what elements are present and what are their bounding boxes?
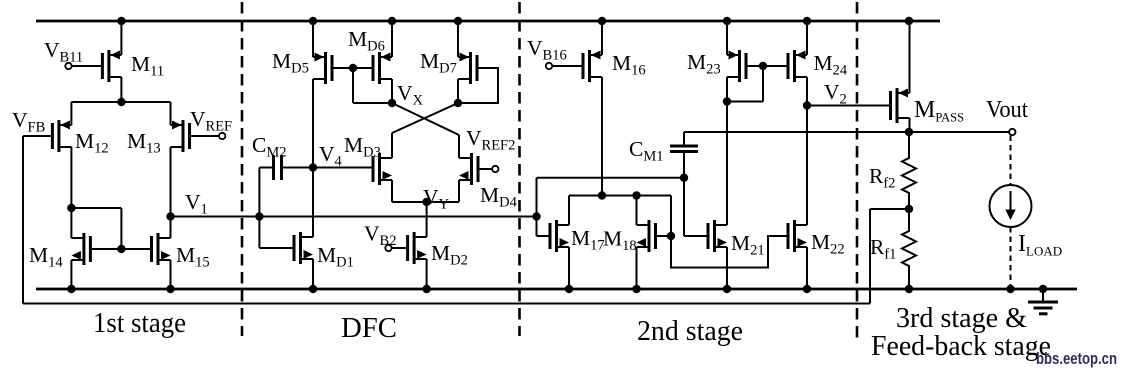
- wire MD3 drain riser: [391, 133, 393, 158]
- wire M11 drain to tail node: [120, 77, 122, 103]
- transistor MPASS: [896, 88, 899, 123]
- wire M17 gate lead: [536, 217, 538, 237]
- svg-text:MD7: MD7: [420, 49, 457, 77]
- wire VY link: [392, 201, 459, 203]
- transistor MD2: [413, 232, 416, 264]
- transistor M14: [82, 233, 85, 265]
- svg-text:MD6: MD6: [348, 27, 385, 55]
- wire M15 drain up to V1: [170, 217, 172, 238]
- svg-text:V2: V2: [824, 80, 847, 108]
- node dot M11 on rail: [117, 17, 125, 25]
- wire MD1 drain up to V4: [312, 168, 314, 238]
- node dot Vout: [905, 128, 913, 136]
- wire M15 source down: [170, 260, 172, 289]
- svg-text:VB16: VB16: [527, 36, 567, 64]
- node dot CM1 bottom: [680, 174, 688, 182]
- svg-text:M15: M15: [176, 243, 210, 271]
- transistor M16: [588, 50, 591, 82]
- wire top supply rail: [36, 20, 940, 23]
- wire MPASS source to rail: [909, 21, 911, 93]
- wire mirror top link: [569, 195, 671, 197]
- terminal VB16: [546, 63, 552, 69]
- wire M23 drain down: [726, 77, 728, 102]
- wire VFB gate lead: [23, 135, 51, 137]
- wire M13 source up: [170, 102, 172, 125]
- wire Vout bus: [684, 131, 1009, 133]
- wire M12 drain down: [70, 147, 72, 208]
- wire CM2 to V1: [258, 168, 260, 217]
- wire M13 drain down to V1: [170, 147, 172, 217]
- svg-text:MD3: MD3: [344, 133, 381, 161]
- wire gate mirror M14 M15: [92, 248, 151, 250]
- terminal VREF2 gate: [480, 168, 493, 170]
- svg-text:CM1: CM1: [629, 137, 664, 165]
- svg-text:M23: M23: [687, 50, 721, 78]
- node dot MD7 on rail: [454, 17, 462, 25]
- wire MD4 drain riser: [458, 135, 460, 158]
- divider 1st stage / DFC: [241, 2, 244, 336]
- transistor MD3: [378, 153, 381, 185]
- wire M23 diode link: [762, 66, 764, 102]
- svg-text:VREF: VREF: [190, 107, 232, 135]
- node dot M23 on rail: [723, 17, 731, 25]
- divider DFC / 2nd stage: [518, 2, 521, 336]
- wire M12 source up: [70, 102, 72, 125]
- svg-text:MD2: MD2: [431, 241, 468, 269]
- svg-text:MD1: MD1: [317, 243, 354, 271]
- wire M16 source to rail: [601, 21, 603, 55]
- wire CM1 to V1 link: [537, 177, 685, 179]
- svg-text:M22: M22: [811, 230, 845, 258]
- wire feedback bottom line: [23, 303, 870, 305]
- wire M18 source down: [636, 247, 638, 289]
- current source ILOAD: [990, 185, 1032, 227]
- svg-text:VB11: VB11: [44, 38, 83, 66]
- wire tail of M12 M13: [71, 101, 170, 103]
- node dot MD5 on rail: [309, 17, 317, 25]
- wire MD1 gate lead: [258, 217, 260, 249]
- wire V2 down to M22 drain: [806, 106, 808, 226]
- wire M23 drain to M21: [726, 102, 728, 226]
- wire M22 source down: [806, 247, 808, 289]
- wire CM1 node down to M21 gate: [683, 178, 685, 236]
- svg-text:M21: M21: [731, 231, 765, 259]
- wire VY down to MD2 drain: [426, 202, 428, 225]
- wire M24 source to rail: [806, 21, 808, 55]
- svg-text:Vout: Vout: [986, 97, 1028, 123]
- node dot MD1 source on rail: [309, 285, 317, 293]
- node dot feedback tap: [905, 205, 913, 213]
- svg-text:M18: M18: [603, 227, 637, 255]
- wire M11 source to rail: [120, 21, 122, 55]
- node dot ILOAD on rail: [1006, 285, 1014, 293]
- wire M17 drain up: [568, 196, 570, 226]
- node dot M18 source on rail: [632, 285, 640, 293]
- wire MD2 drain up: [426, 225, 428, 237]
- wire feedback tap link: [870, 208, 909, 210]
- node dot tail: [117, 98, 125, 106]
- terminal VB2: [385, 245, 391, 251]
- svg-text:M16: M16: [612, 51, 646, 79]
- wire feedback riser right: [869, 209, 871, 304]
- node dot M24 on rail: [803, 17, 811, 25]
- wire MD5 source to rail: [312, 21, 314, 57]
- svg-text:V4: V4: [319, 142, 343, 170]
- wire M23 M24 gate link: [748, 65, 787, 67]
- node dot gate link: [349, 64, 357, 72]
- svg-text:VREF2: VREF2: [466, 126, 515, 154]
- node dot M15 source on rail: [166, 285, 174, 293]
- svg-text:DFC: DFC: [341, 312, 397, 344]
- node dot M18 gate node: [667, 232, 675, 240]
- wire MD7 diode loop: [458, 68, 498, 103]
- wire MD5 MD6 gate link: [334, 67, 372, 69]
- svg-text:ILOAD: ILOAD: [1018, 231, 1062, 259]
- transistor MD5: [324, 52, 327, 84]
- node dot M14 source on rail: [67, 285, 75, 293]
- transistor M12: [57, 120, 60, 152]
- svg-text:1st stage: 1st stage: [93, 307, 186, 339]
- transistor M15: [157, 233, 160, 265]
- transistor M23: [738, 50, 741, 82]
- svg-text:Rf1: Rf1: [870, 235, 896, 263]
- resistor Rf1: [902, 209, 916, 289]
- wire VFB feedback riser left: [22, 136, 24, 304]
- wire MD7 source to rail: [457, 21, 459, 57]
- node dot CM2 V1: [255, 212, 263, 220]
- wire MD5 drain down to V4: [312, 79, 314, 168]
- svg-text:VX: VX: [397, 81, 424, 109]
- ground symbol: [1039, 285, 1047, 293]
- node dot VY: [422, 198, 430, 206]
- node dot M16 on rail: [598, 17, 606, 25]
- wire MD2 source down: [426, 259, 428, 289]
- svg-text:VFB: VFB: [12, 108, 45, 136]
- node dot MD7 drain: [454, 99, 462, 107]
- wire M16 drain down: [601, 77, 603, 196]
- capacitor CM1: [670, 145, 698, 148]
- transistor M24: [793, 50, 796, 82]
- svg-text:MD5: MD5: [272, 49, 309, 77]
- transistor M18: [648, 220, 651, 252]
- transistor M22: [793, 220, 796, 252]
- resistor Rf2: [902, 132, 916, 209]
- transistor MD1: [299, 232, 302, 264]
- wire gate link down to VX: [352, 68, 354, 103]
- svg-text:M11: M11: [131, 52, 164, 80]
- svg-text:2nd stage: 2nd stage: [637, 315, 743, 347]
- wire MD1 source down: [312, 259, 314, 289]
- node dot M17 source on rail: [565, 285, 573, 293]
- node dot M21 source on rail: [723, 285, 731, 293]
- wire under-route to M22 gate: [671, 236, 787, 268]
- svg-text:M17: M17: [571, 226, 605, 254]
- wire cross diagonal VX to MD4: [392, 103, 459, 135]
- node dot VX: [388, 99, 396, 107]
- node dot MD2 source on rail: [422, 285, 430, 293]
- wire M23 source to rail: [726, 21, 728, 55]
- svg-text:Rf2: Rf2: [869, 164, 895, 192]
- node dot M22 source on rail: [803, 285, 811, 293]
- wire diode connection M14: [71, 207, 121, 209]
- transistor M13: [182, 120, 185, 152]
- node dot V1: [166, 212, 174, 220]
- wire V2 to MPASS gate: [807, 105, 889, 107]
- current source ILOAD dashed bottom: [1010, 227, 1012, 289]
- transistor M17: [555, 220, 558, 252]
- terminal VREF: [191, 135, 220, 137]
- node dot V1 to M17: [532, 212, 540, 220]
- svg-text:CM2: CM2: [252, 133, 287, 161]
- node dot V4: [309, 163, 317, 171]
- terminal VB11: [65, 63, 71, 69]
- wire M14 source down: [70, 260, 72, 289]
- wire M17 source down: [568, 247, 570, 289]
- svg-text:MD4: MD4: [480, 183, 518, 211]
- wire V1 bus: [171, 216, 537, 218]
- wire M24 drain down to V2: [806, 77, 808, 106]
- node dot mirror gate: [117, 245, 125, 253]
- wire MD4 source down: [458, 180, 460, 202]
- wire MD3 source down: [391, 180, 393, 202]
- current source ILOAD dashed top: [1010, 136, 1012, 185]
- node dot V2: [803, 101, 811, 109]
- svg-text:V1: V1: [185, 190, 208, 218]
- divider 2nd stage / 3rd stage: [856, 2, 859, 341]
- wire V4 lead to MD3 gate: [313, 167, 372, 169]
- wire bottom ground rail: [36, 288, 1077, 291]
- wire M21 gate lead: [684, 235, 707, 237]
- svg-text:VB2: VB2: [364, 222, 396, 250]
- node dot Rf1 on rail: [905, 285, 913, 293]
- wire M21 source down: [726, 247, 728, 289]
- svg-text:M12: M12: [75, 129, 109, 157]
- node dot M23 gate link: [759, 62, 767, 70]
- transistor M21: [713, 220, 716, 252]
- capacitor CM2: [272, 155, 275, 180]
- svg-text:Feed-back stage: Feed-back stage: [871, 330, 1051, 362]
- svg-text:MPASS: MPASS: [914, 97, 964, 125]
- wire cross diagonal MD7 to MD3: [392, 103, 458, 133]
- wire M18 drain up: [636, 196, 638, 226]
- wire MPASS drain to Vout: [909, 118, 911, 132]
- svg-text:M24: M24: [814, 51, 848, 79]
- node dot M12-M14 diode node: [67, 204, 75, 212]
- terminal Vout: [1009, 129, 1015, 135]
- transistor MD4: [470, 153, 473, 185]
- node dot MD6 on rail: [388, 17, 396, 25]
- svg-text:bbs.eetop.cn: bbs.eetop.cn: [1036, 350, 1117, 368]
- wire M14 drain up: [70, 208, 72, 238]
- node dot M16 drain junction: [598, 191, 606, 199]
- node dot M23 drain: [723, 97, 731, 105]
- wire MD6 drain down to VX: [391, 79, 393, 103]
- node dot M18 drain junction: [632, 191, 640, 199]
- wire M18 gate lead: [657, 235, 671, 237]
- node dot MPASS on rail: [905, 17, 913, 25]
- wire mirror link down to M18 gate: [670, 196, 672, 237]
- transistor M11: [107, 50, 110, 82]
- svg-text:M14: M14: [29, 243, 63, 271]
- svg-text:M13: M13: [127, 129, 161, 157]
- transistor MD6: [378, 52, 381, 84]
- wire MD6 source to rail: [391, 21, 393, 57]
- wire MD7 drain down: [457, 79, 459, 103]
- transistor MD7: [469, 52, 472, 84]
